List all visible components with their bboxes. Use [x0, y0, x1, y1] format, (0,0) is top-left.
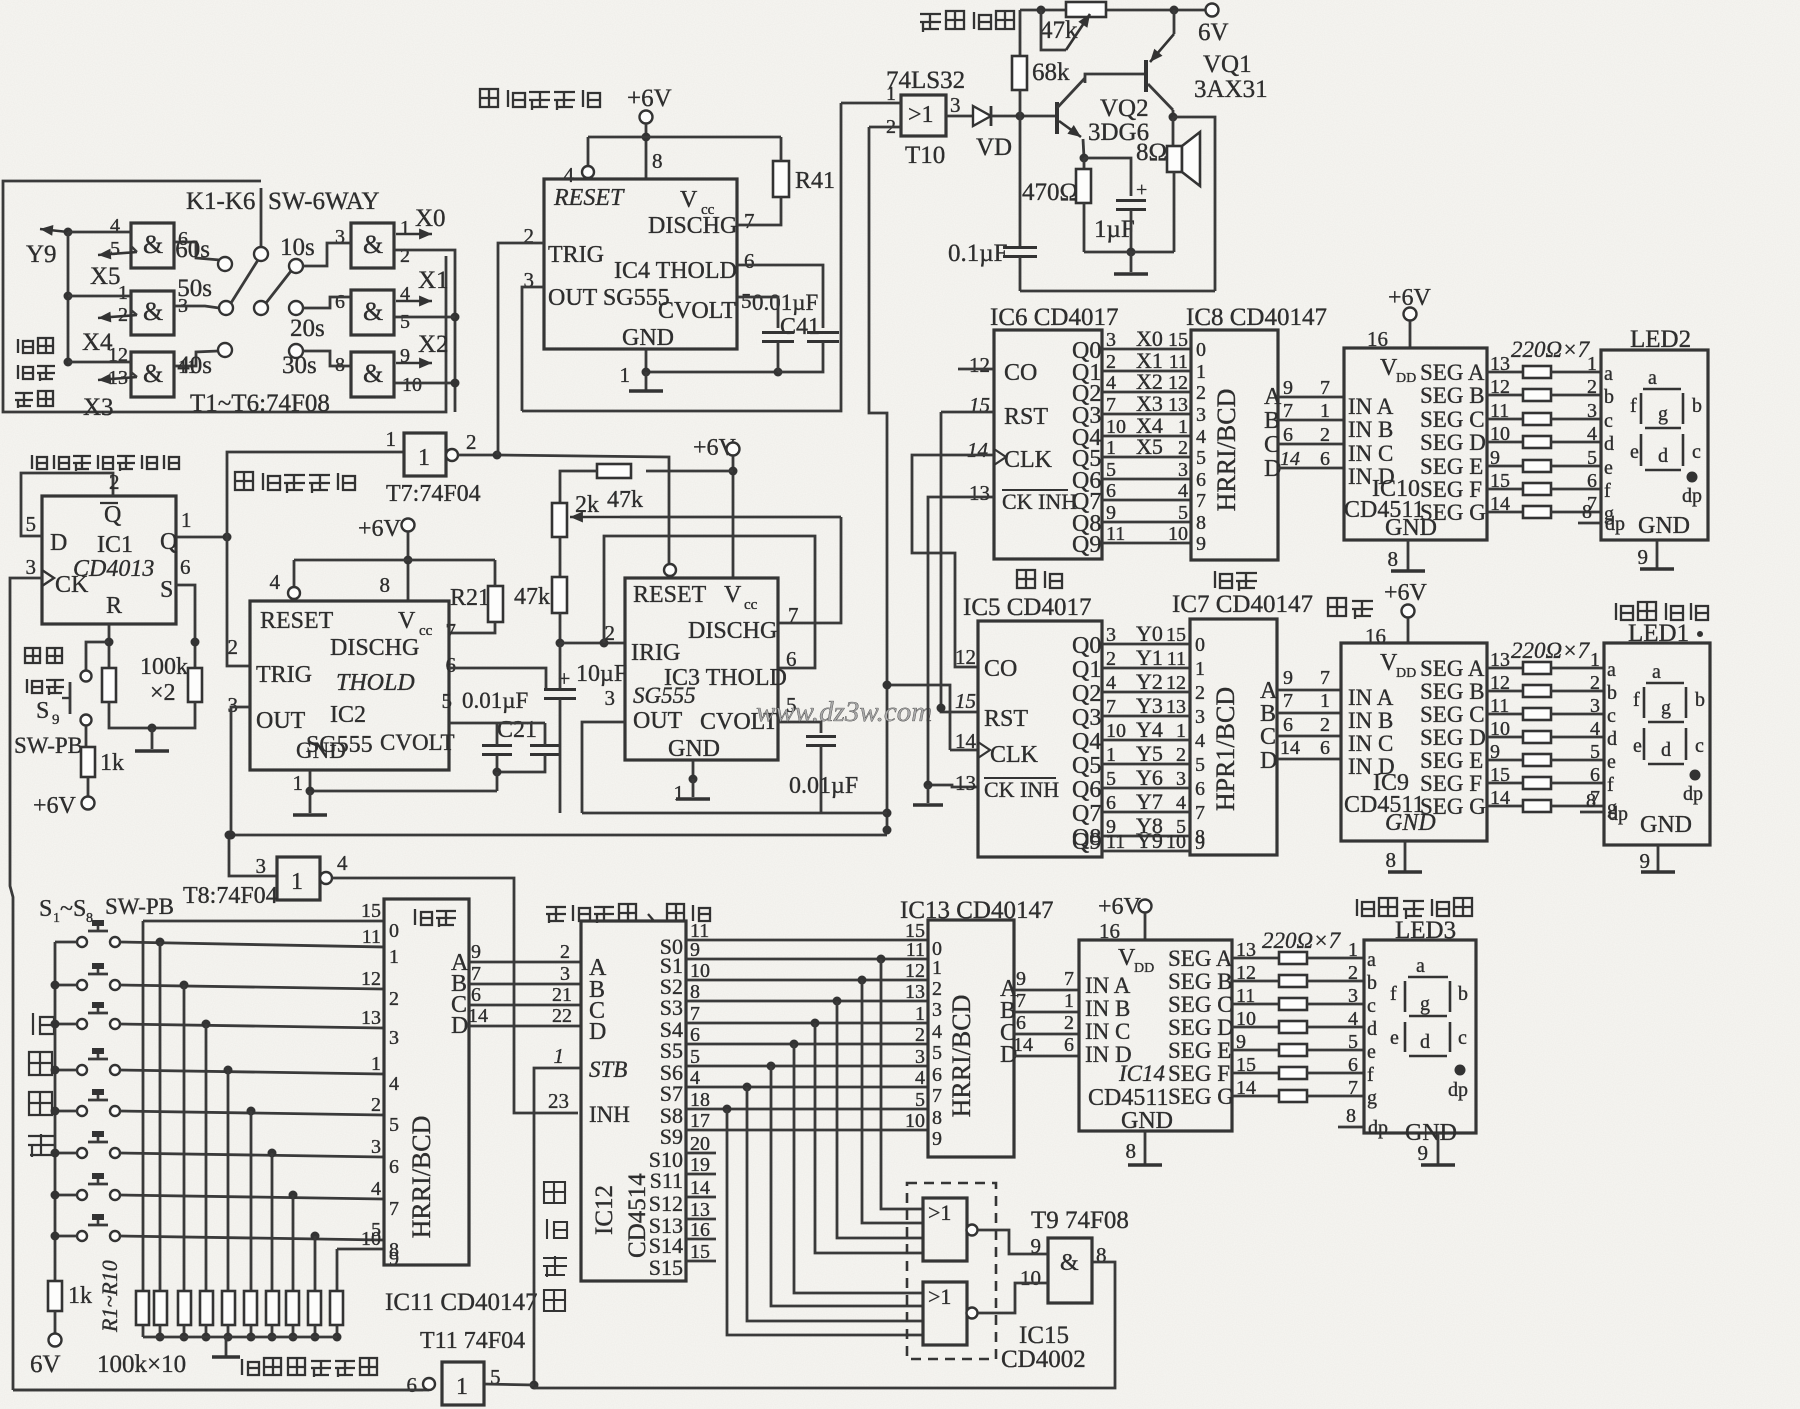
wire riser x771 to IC15 gate input: [771, 1066, 923, 1306]
IC4 SG555 box: [544, 179, 737, 349]
wire pin4 stub: [587, 137, 590, 166]
svg-text:Y9: Y9: [1136, 828, 1163, 853]
svg-text:&: &: [1060, 1250, 1079, 1276]
svg-text:g: g: [1420, 993, 1430, 1015]
push button S2: [77, 980, 87, 990]
svg-text:&: &: [143, 359, 163, 388]
resistor 220 ohm segment 512: [1523, 506, 1551, 518]
svg-text:9: 9: [1418, 1141, 1429, 1165]
switch contact 40s: [218, 343, 232, 357]
wire IC12 S4 to IC13 input 4: [686, 1022, 928, 1025]
inverter T11: [442, 1362, 484, 1405]
svg-text:IC8 CD40147: IC8 CD40147: [1186, 304, 1327, 331]
wire R21 to pin7: [494, 560, 497, 586]
resistor R1 100k: [136, 1291, 149, 1325]
IC2 SG555 box: [250, 601, 449, 770]
svg-text:6: 6: [932, 1064, 942, 1086]
svg-text:0.01µF: 0.01µF: [752, 290, 818, 315]
svg-text:8: 8: [380, 573, 391, 597]
svg-text:a: a: [1604, 363, 1613, 385]
wire IC4 out pin3 left down: [522, 287, 544, 411]
AND gate T1: [131, 223, 174, 268]
wire speaker node to right vertical: [1173, 117, 1215, 291]
svg-text:2: 2: [1195, 682, 1205, 704]
svg-text:15: 15: [955, 689, 976, 713]
svg-text:9: 9: [1196, 533, 1206, 555]
svg-text:CLK: CLK: [990, 742, 1039, 768]
svg-text:VQ2: VQ2: [1100, 95, 1149, 122]
svg-text:Q9: Q9: [1072, 532, 1101, 558]
svg-text:SW-PB: SW-PB: [105, 894, 174, 919]
label 计时: [1017, 570, 1062, 588]
svg-text:3: 3: [1590, 695, 1600, 717]
svg-text:SEG F: SEG F: [1420, 477, 1482, 502]
wire 68k to base node: [1019, 90, 1022, 116]
wire 10s to T4 pin3: [302, 243, 351, 266]
svg-text:6: 6: [1106, 792, 1116, 814]
capacitor C21a: [482, 746, 512, 755]
svg-text:7: 7: [1320, 667, 1330, 689]
svg-text:3: 3: [950, 93, 961, 117]
svg-text:S: S: [36, 698, 49, 724]
svg-text:10: 10: [1166, 831, 1186, 853]
svg-text:T11 74F04: T11 74F04: [420, 1328, 525, 1354]
wire IC6 Q7 to IC8 input 7: [1102, 499, 1191, 502]
svg-text:g: g: [1367, 1087, 1377, 1109]
capacitor 1uF electrolytic: [1084, 158, 1131, 196]
svg-text:f: f: [1633, 689, 1640, 711]
svg-text:>1: >1: [928, 1284, 951, 1309]
svg-text:b: b: [1367, 972, 1377, 994]
svg-text:HRRI/BCD: HRRI/BCD: [947, 995, 976, 1118]
push button S4: [77, 1065, 87, 1075]
svg-text:V: V: [724, 582, 742, 608]
svg-text:6: 6: [1587, 470, 1597, 492]
svg-text:X5: X5: [90, 263, 121, 290]
svg-text:2: 2: [389, 988, 399, 1010]
svg-text:3AX31: 3AX31: [1194, 76, 1268, 103]
svg-text:6: 6: [471, 984, 481, 1006]
resistor 220 ohm segment 1027: [1279, 1021, 1307, 1033]
svg-text:6: 6: [786, 647, 797, 671]
svg-text:3: 3: [1106, 329, 1116, 351]
resistor 220 ohm segment 372: [1523, 366, 1551, 378]
svg-text:VQ1: VQ1: [1203, 51, 1252, 78]
100k bottom rail: [109, 702, 195, 728]
resistor R6 100k: [244, 1291, 257, 1325]
svg-text:7: 7: [1195, 802, 1205, 824]
push button S7: [77, 1190, 87, 1200]
svg-text:3: 3: [1106, 624, 1116, 646]
svg-text:CO: CO: [984, 656, 1017, 682]
svg-text:TRIG: TRIG: [548, 242, 604, 268]
svg-text:4: 4: [915, 1067, 925, 1089]
svg-text:4: 4: [1348, 1008, 1358, 1030]
AND gate T6: [351, 352, 394, 397]
push button S5: [77, 1106, 87, 1116]
svg-text:K1-K6: K1-K6: [186, 188, 255, 215]
label 时间显示: [1616, 602, 1708, 620]
svg-text:cc: cc: [419, 623, 433, 639]
svg-text:12: 12: [1166, 672, 1186, 694]
svg-text:R1~R10: R1~R10: [97, 1260, 122, 1333]
wire IC2 thold pin6: [449, 668, 546, 689]
button column trunk: [54, 942, 57, 1278]
svg-text:14: 14: [1280, 737, 1300, 759]
rail IC4 out to T10 pin1: [522, 103, 841, 411]
resistor 1k reset: [81, 747, 95, 777]
wire branch up to IC4 TRIG: [497, 452, 498, 455]
svg-text:D: D: [589, 1019, 606, 1045]
svg-text:d: d: [1607, 728, 1617, 750]
svg-text:C21: C21: [497, 717, 537, 743]
svg-text:21: 21: [552, 984, 572, 1006]
svg-text:1: 1: [932, 957, 942, 979]
resistor R8 100k: [286, 1291, 299, 1325]
svg-text:3: 3: [560, 963, 570, 985]
resistor R9 100k: [308, 1291, 321, 1325]
svg-text:8: 8: [1386, 848, 1397, 872]
switch pole contact lower: [254, 301, 268, 315]
svg-text:dp: dp: [1608, 803, 1628, 825]
svg-text:15: 15: [361, 900, 381, 922]
svg-text:7: 7: [1106, 696, 1116, 718]
svg-text:IN B: IN B: [1348, 708, 1393, 733]
svg-text:c: c: [1695, 735, 1704, 757]
svg-text:b: b: [1695, 689, 1705, 711]
svg-text:Q2: Q2: [1072, 681, 1101, 707]
svg-text:X2: X2: [418, 331, 449, 358]
diode VD: [973, 106, 991, 126]
svg-text:7: 7: [446, 619, 457, 643]
svg-text:C: C: [1264, 432, 1280, 458]
svg-text:3: 3: [1178, 459, 1188, 481]
svg-text:15: 15: [1168, 329, 1188, 351]
pin 4 circle IC4 reset: [582, 166, 594, 178]
wire IC5 Q7 to IC7 input 7: [1102, 811, 1190, 814]
svg-text:S: S: [39, 896, 52, 922]
svg-text:6: 6: [1195, 778, 1205, 800]
switch contact 20s: [289, 301, 303, 315]
svg-text:5: 5: [1106, 768, 1116, 790]
wire IC4 trig pin2 left: [498, 243, 544, 452]
svg-text:CK INH: CK INH: [1002, 489, 1077, 514]
wire IC2 cvolt pin5 to caps: [449, 722, 545, 725]
svg-text:SG555: SG555: [633, 683, 696, 708]
resistor 220 ohm segment 1096: [1279, 1090, 1307, 1102]
svg-text:3: 3: [932, 999, 942, 1021]
inverter T7: [404, 433, 446, 476]
svg-text:+6V: +6V: [1384, 580, 1428, 606]
rail RST chain: [941, 412, 978, 712]
resistor 220 ohm segment 691: [1523, 685, 1551, 697]
svg-text:b: b: [1458, 983, 1468, 1005]
pin 2 wire Qbar feedback to D pin5: [21, 473, 113, 536]
bottom rail left segment: [13, 1389, 423, 1392]
wire IC12 S8 to IC13 input 8: [686, 1108, 928, 1111]
svg-text:R41: R41: [795, 168, 835, 194]
svg-text:5: 5: [26, 512, 37, 536]
svg-text:4: 4: [270, 570, 281, 594]
audio mid gnd rail: [1084, 251, 1174, 254]
svg-text:1: 1: [620, 363, 631, 387]
svg-text:X5: X5: [1136, 434, 1163, 459]
svg-text:12: 12: [1168, 372, 1188, 394]
label 抢答自动信号: [242, 1358, 377, 1377]
svg-text:2: 2: [1196, 382, 1206, 404]
AND gate T3: [131, 352, 174, 397]
svg-text:7: 7: [744, 209, 755, 233]
svg-text:1: 1: [1348, 939, 1358, 961]
wire riser x837 to IC15 gate input: [837, 1001, 923, 1238]
svg-text:3: 3: [1195, 706, 1205, 728]
svg-text:6: 6: [1348, 1054, 1358, 1076]
wire IC12 S7 to IC13 input 7: [686, 1086, 928, 1089]
svg-text:5: 5: [1178, 502, 1188, 524]
svg-text:Q4: Q4: [1072, 729, 1101, 755]
svg-text:10: 10: [361, 1228, 381, 1250]
capacitor C41b: [807, 333, 839, 342]
wire IC6 Q2 to IC8 input 2: [1102, 391, 1191, 394]
wire gnd rail links caps: [496, 772, 499, 791]
wire IC6 Q9 to IC8 input 9: [1102, 542, 1191, 545]
svg-text:1: 1: [386, 427, 397, 451]
svg-text:5: 5: [1195, 754, 1205, 776]
svg-text:8: 8: [1388, 547, 1399, 571]
svg-text:d: d: [1661, 739, 1671, 761]
svg-text:HPR1/BCD: HPR1/BCD: [1211, 687, 1240, 811]
svg-text:13: 13: [955, 771, 976, 795]
svg-text:f: f: [1607, 774, 1614, 796]
svg-text:6V: 6V: [30, 1351, 61, 1378]
svg-text:S: S: [160, 577, 173, 603]
wires IC13 to IC14: [1014, 989, 1079, 992]
switch contact 50s: [219, 301, 233, 315]
wire IC12 S5 to IC13 input 5: [686, 1043, 928, 1046]
svg-text:6: 6: [180, 555, 191, 579]
svg-text:Q0: Q0: [1072, 633, 1101, 659]
svg-text:9: 9: [1106, 502, 1116, 524]
svg-text:SW-PB: SW-PB: [14, 733, 83, 758]
wire T3 out to 40s contact: [174, 351, 218, 366]
IC14 gnd pin8: [1144, 1131, 1147, 1164]
ground audio: [1130, 252, 1133, 272]
resistor 68k: [1019, 10, 1022, 57]
svg-text:Y7: Y7: [1136, 789, 1163, 814]
svg-text:6: 6: [1320, 737, 1330, 759]
svg-text:HRRI/BCD: HRRI/BCD: [407, 1116, 436, 1239]
svg-text:IN B: IN B: [1348, 417, 1393, 442]
svg-text:7: 7: [1283, 690, 1293, 712]
svg-text:GND: GND: [668, 736, 720, 762]
svg-text:1: 1: [1195, 658, 1205, 680]
node X0 arrow: [396, 233, 432, 236]
wire pin6 to C41 right cap: [737, 265, 823, 328]
svg-text:1: 1: [456, 1374, 468, 1400]
svg-text:&: &: [363, 297, 383, 326]
svg-text:GND: GND: [1640, 812, 1692, 838]
wire NOR1 out to T9 pin9: [978, 1230, 1048, 1254]
wire IC5 Q5 to IC7 input 5: [1102, 763, 1190, 766]
svg-text:C41: C41: [780, 314, 820, 340]
svg-text:2: 2: [109, 470, 120, 494]
wire rail to T8 input: [229, 835, 277, 876]
svg-text:3: 3: [371, 1136, 381, 1158]
IC14 CD4511 box: [1079, 940, 1232, 1131]
resistor 220 ohm segment 783: [1523, 777, 1551, 789]
svg-text:dp: dp: [1368, 1117, 1388, 1139]
svg-text:SEG E: SEG E: [1168, 1038, 1231, 1063]
svg-text:6: 6: [1283, 714, 1293, 736]
wire R41 bottom to pin7: [737, 197, 781, 225]
IC3 bottom rail: [582, 812, 887, 815]
svg-text:10: 10: [402, 374, 422, 396]
svg-text:Q6: Q6: [1072, 777, 1101, 803]
svg-text:CD4514: CD4514: [624, 1173, 651, 1258]
svg-text:3: 3: [389, 1027, 399, 1049]
svg-text:22: 22: [552, 1005, 572, 1027]
IC6 left pin wires: [958, 368, 994, 371]
svg-text:Q9: Q9: [1072, 829, 1101, 855]
switch contact 60s: [218, 257, 232, 271]
node X3 arrow: [98, 377, 137, 380]
IC11 CD40147 box: [384, 899, 469, 1265]
svg-text:47k: 47k: [607, 487, 643, 513]
svg-text:7: 7: [1064, 968, 1074, 990]
wire IC5 Q0 to IC7 input 0: [1102, 643, 1190, 646]
svg-text:DD: DD: [1396, 371, 1416, 386]
label 锁存信号 vertical: [544, 1182, 565, 1203]
svg-text:CVOLT: CVOLT: [658, 298, 736, 324]
svg-text:4: 4: [1196, 426, 1206, 448]
svg-text:c: c: [1604, 410, 1613, 432]
svg-text:30s: 30s: [282, 352, 317, 379]
switch pole contact upper: [254, 247, 268, 261]
svg-text:1: 1: [291, 869, 303, 895]
wire IC12 S2 to IC13 input 2: [686, 979, 928, 982]
switch SW-6WAY pole wire: [260, 188, 263, 247]
svg-text:1: 1: [1590, 649, 1600, 671]
wire IC6 Q1 to IC8 input 1: [1102, 370, 1191, 373]
svg-text:X1: X1: [418, 267, 449, 294]
svg-text:3: 3: [335, 226, 345, 248]
svg-text:HRRI/BCD: HRRI/BCD: [1212, 389, 1241, 512]
svg-text:STB: STB: [589, 1057, 627, 1082]
svg-text:DD: DD: [1134, 961, 1154, 976]
100k common rail and ground: [143, 1336, 337, 1339]
speaker 8ohm: [1167, 146, 1182, 172]
resistor 220 ohm segment 489: [1523, 483, 1551, 495]
svg-text:SEG D: SEG D: [1420, 725, 1486, 750]
svg-text:2: 2: [1587, 376, 1597, 398]
svg-text:12: 12: [905, 960, 925, 982]
svg-text:Y1: Y1: [1136, 645, 1163, 670]
IC12 CD4514 box: [581, 921, 686, 1281]
svg-text:Q1: Q1: [1072, 657, 1101, 683]
svg-text:SEG A: SEG A: [1420, 656, 1485, 681]
capacitor C21b: [530, 746, 560, 755]
svg-text:Q5: Q5: [1072, 753, 1101, 779]
svg-text:9: 9: [1640, 849, 1651, 873]
svg-text:1: 1: [1196, 361, 1206, 383]
svg-text:4: 4: [932, 1021, 942, 1043]
svg-text:V: V: [680, 187, 698, 213]
wire 20s to T5 pin6: [302, 297, 351, 308]
svg-text:X0: X0: [415, 205, 446, 232]
wire IC5 Q8 to IC7 input 8: [1102, 835, 1190, 838]
svg-text:1k: 1k: [68, 1283, 92, 1309]
svg-text:10µF: 10µF: [576, 661, 627, 687]
node Y9 arrow: [40, 229, 68, 232]
svg-text:b: b: [1692, 395, 1702, 417]
resistor 220 ohm segment 442: [1523, 436, 1551, 448]
wire IC12 S3 to IC13 input 3: [686, 1000, 928, 1003]
wire 1uF bottom: [1130, 210, 1133, 252]
svg-text:cc: cc: [744, 597, 758, 613]
left outer wire down to bottom rail: [13, 1389, 429, 1392]
OR gate T10: [901, 95, 946, 136]
svg-text:CO: CO: [1004, 360, 1037, 386]
reset switch S9 branch wire: [86, 642, 109, 672]
svg-text:7: 7: [471, 963, 481, 985]
IC9 gnd pin8: [1404, 841, 1407, 871]
svg-text:SEG B: SEG B: [1420, 679, 1485, 704]
wire T7 out to IC3 reset and IC4 trig: [458, 455, 669, 563]
svg-text:50s: 50s: [177, 275, 212, 302]
wire IC6 Q0 to IC8 input 0: [1102, 348, 1191, 351]
svg-text:GND: GND: [296, 738, 346, 763]
capacitor C41a: [762, 333, 794, 342]
wire Q to T7 input: [227, 452, 404, 537]
svg-text:dp: dp: [1605, 513, 1625, 535]
resistor R3 100k: [178, 1291, 191, 1325]
svg-text:Y2: Y2: [1136, 669, 1163, 694]
svg-text:V: V: [398, 608, 416, 634]
svg-text:Q: Q: [104, 502, 121, 528]
svg-text:1: 1: [554, 1044, 565, 1068]
svg-text:d: d: [1367, 1018, 1377, 1040]
svg-text:SEG B: SEG B: [1420, 383, 1485, 408]
wire STB down to latch rail: [534, 1068, 581, 1385]
svg-text:+6V: +6V: [358, 516, 402, 542]
svg-text:SW-6WAY: SW-6WAY: [268, 188, 380, 215]
wire caps to bottom rail: [777, 342, 780, 372]
svg-text:OUT: OUT: [633, 708, 683, 734]
resistor 220 ohm segment 714: [1523, 708, 1551, 720]
svg-text:5: 5: [915, 1089, 925, 1111]
svg-text:4: 4: [1176, 792, 1186, 814]
svg-text:S11: S11: [650, 1168, 683, 1193]
svg-text:OUT SG555: OUT SG555: [548, 285, 670, 311]
svg-text:1: 1: [1106, 437, 1116, 459]
IC2 vcc rail to pin4 and R21: [294, 559, 495, 562]
capacitor 0.01uF IC3: [806, 737, 836, 746]
svg-text:Y5: Y5: [1136, 741, 1163, 766]
svg-text:9: 9: [1283, 667, 1293, 689]
svg-text:1: 1: [915, 1003, 925, 1025]
svg-text:6: 6: [1590, 764, 1600, 786]
wire IC5 Q4 to IC7 input 4: [1102, 739, 1190, 742]
AND gate T2: [131, 291, 174, 335]
svg-text:1: 1: [1320, 690, 1330, 712]
label 译码: [1328, 598, 1373, 619]
ground IC2: [309, 791, 312, 813]
svg-text:IN A: IN A: [1348, 685, 1394, 710]
svg-text:SEG A: SEG A: [1168, 946, 1233, 971]
svg-text:THOLD: THOLD: [336, 670, 415, 696]
label 抢答按钮 vertical: [33, 1013, 54, 1035]
inverter T8: [277, 857, 320, 900]
